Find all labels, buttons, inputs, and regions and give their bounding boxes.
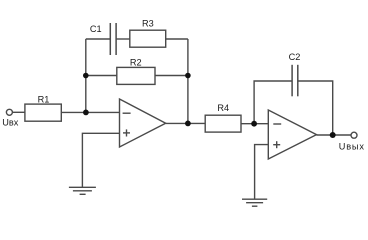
svg-text:R4: R4 [217,103,229,113]
svg-text:R2: R2 [130,57,142,67]
svg-text:R1: R1 [38,95,50,105]
svg-text:Uвых: Uвых [339,141,365,151]
svg-text:Uвх: Uвх [2,117,19,127]
svg-text:C1: C1 [90,24,102,34]
svg-text:R3: R3 [142,18,154,28]
svg-text:C2: C2 [289,52,301,62]
